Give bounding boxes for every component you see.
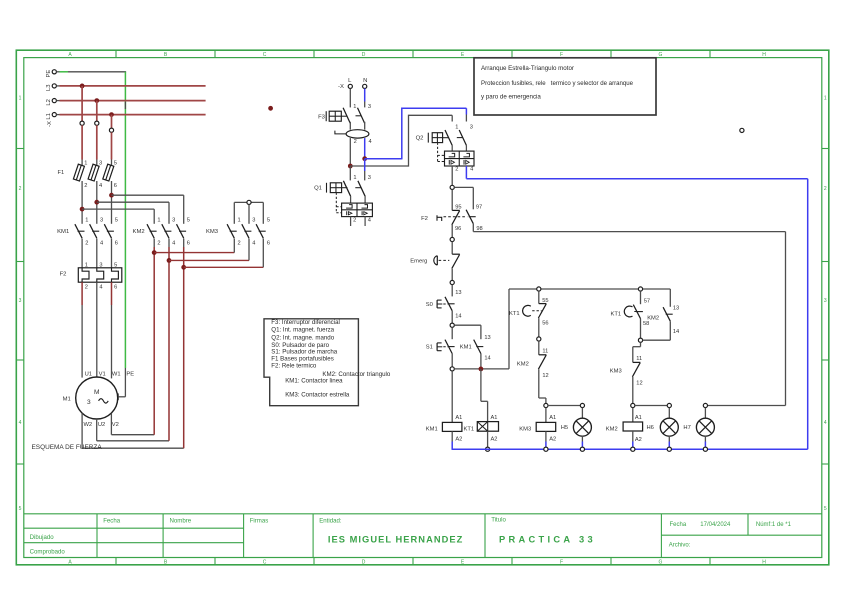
svg-text:M: M <box>94 389 100 396</box>
wire KM2 node to H6 <box>635 405 667 407</box>
svg-text:Proteccion fusibles, rele te: Proteccion fusibles, rele termico y sele… <box>481 80 634 87</box>
svg-text:4: 4 <box>100 241 103 247</box>
svg-text:Q2: Int. magne. mando: Q2: Int. magne. mando <box>271 334 334 341</box>
wire L1 supply line <box>60 114 206 116</box>
svg-text:13: 13 <box>484 335 490 341</box>
wire star bridge mid drop <box>248 205 250 224</box>
svg-text:A2: A2 <box>455 437 462 443</box>
wire node branch to 97 <box>454 186 473 188</box>
frame row numbers 1-5 left <box>19 95 22 512</box>
svg-text:Fecha: Fecha <box>103 518 121 525</box>
wire KM2 pole3 drop <box>183 195 185 224</box>
wire timed node down <box>640 342 642 346</box>
svg-text:C: C <box>263 52 267 58</box>
svg-text:S1: S1 <box>426 345 433 351</box>
contactor coil KM2 <box>606 415 643 443</box>
svg-text:Emerg: Emerg <box>410 258 427 264</box>
indicator lamp H5 <box>561 418 592 436</box>
svg-text:4: 4 <box>369 139 372 145</box>
connection point after S0 <box>450 323 454 327</box>
svg-text:Q1: Q1 <box>314 186 322 192</box>
wire to KM2 coil <box>632 408 634 422</box>
svg-text:3: 3 <box>99 262 102 268</box>
wire to KM3 nc <box>632 347 634 363</box>
svg-text:3: 3 <box>368 175 371 181</box>
svg-text:5: 5 <box>824 506 827 512</box>
contactor KM2 aux contact 13-14 <box>647 305 679 335</box>
svg-text:Comprobado: Comprobado <box>30 549 66 556</box>
wire neutral to riser blue <box>365 158 402 160</box>
svg-text:3: 3 <box>252 218 255 224</box>
connection point hold node <box>450 367 454 371</box>
wire phase top <box>409 114 453 116</box>
wire PE vertical gray patch <box>124 102 126 109</box>
wire KM2 nc jog down <box>545 398 547 403</box>
wire PE vertical green <box>124 72 126 368</box>
svg-text:96: 96 <box>455 226 461 232</box>
svg-text:KM3: KM3 <box>610 369 622 375</box>
connection point after 56 <box>537 337 541 341</box>
connection point timed node <box>638 338 642 342</box>
contactor coil KM1 <box>426 415 463 443</box>
svg-text:G: G <box>659 560 663 566</box>
wire phase1 to fuse <box>81 125 83 159</box>
timer contact KT1 55-56 <box>509 298 549 326</box>
svg-text:F: F <box>560 560 563 566</box>
wire L2 supply line <box>60 100 206 102</box>
svg-text:Entidad:: Entidad: <box>319 518 342 525</box>
wire Q2 pin3 lead <box>465 115 467 122</box>
connection point H6 A2 <box>667 447 671 451</box>
wire 97 drop <box>472 187 474 209</box>
contactor KM1 aux contact 13-14 <box>460 335 491 362</box>
wire 58 out <box>640 319 642 339</box>
description text box <box>474 58 656 115</box>
connection point after emerg <box>450 280 454 284</box>
wire H7 blue <box>704 442 706 448</box>
wire Q1 pin3 lead2 <box>364 171 366 180</box>
wire PE stub <box>56 71 59 73</box>
contactor KM3 aux NC contact 11-12 <box>610 356 643 386</box>
svg-text:12: 12 <box>542 373 548 379</box>
wire H5 drop <box>581 408 583 419</box>
wire delta c to KM3 pole3 <box>184 266 264 268</box>
svg-text:F3: Interruptor diferencial: F3: Interruptor diferencial <box>271 319 340 326</box>
indicator lamp H7 <box>683 418 714 436</box>
wire motor W2 across <box>82 447 184 449</box>
wire KM2 pole1 out <box>153 239 155 248</box>
wire neutral rail right blue <box>807 179 809 450</box>
svg-text:2: 2 <box>85 241 88 247</box>
wire phase3 to fuse <box>111 132 113 159</box>
svg-text:A1: A1 <box>549 415 556 421</box>
svg-text:13: 13 <box>673 305 679 311</box>
wire KM2 pole1 red drop <box>153 247 155 435</box>
svg-text:2: 2 <box>353 218 356 224</box>
svg-text:L2: L2 <box>46 99 52 106</box>
svg-text:A1: A1 <box>491 415 498 421</box>
wire motor V2 down <box>110 413 112 434</box>
wire KM2 pole2 out <box>168 239 170 248</box>
svg-text:D: D <box>362 52 366 58</box>
connection point control node <box>450 185 454 189</box>
svg-text:1: 1 <box>238 218 241 224</box>
wire phase to riser <box>350 165 408 167</box>
svg-text:58: 58 <box>643 321 649 327</box>
frame row numbers 1-5 right <box>824 95 827 512</box>
terminal L2 <box>46 99 57 106</box>
wire phase drop to Q2 <box>451 115 453 121</box>
svg-text:U1: U1 <box>85 371 92 377</box>
label -X power terminals <box>47 121 53 127</box>
junction phase1 branch <box>80 207 85 212</box>
svg-text:A2: A2 <box>549 437 556 443</box>
svg-text:KM1: KM1 <box>57 229 69 235</box>
svg-text:Titulo: Titulo <box>491 517 506 524</box>
svg-text:55: 55 <box>542 298 548 304</box>
svg-text:2: 2 <box>19 186 22 192</box>
frame column ticks top and bottom <box>116 50 710 565</box>
thermal relay F2 control contact 95-96 <box>421 205 467 233</box>
wire H5 blue <box>581 442 583 448</box>
wire L2 drop upper <box>96 101 98 122</box>
motor PE tick <box>117 393 119 400</box>
svg-text:1: 1 <box>85 262 88 268</box>
neutral rail bottom blue <box>452 448 808 450</box>
wire L1 stub <box>56 114 59 116</box>
wire S1 out <box>451 354 453 367</box>
svg-text:L1: L1 <box>46 113 52 120</box>
thermal relay F2 control contact 97-98 <box>466 205 483 233</box>
junction phase2 branch <box>94 200 99 205</box>
contactor KM2 main contacts <box>133 218 190 247</box>
wire KM3 A2 down <box>545 431 547 441</box>
star bridge bar <box>234 201 263 203</box>
wire F3 out left <box>349 138 351 166</box>
wire KM2 A2 down <box>632 431 634 442</box>
connection point KT1 A2 <box>486 447 490 451</box>
svg-text:V2: V2 <box>112 422 119 428</box>
junction KT1 feed <box>479 367 484 372</box>
wire KM1 A2 blue <box>451 442 453 450</box>
wire KM1 A2 down <box>451 431 453 441</box>
frame column letters A-H top <box>68 52 766 58</box>
svg-text:2: 2 <box>85 284 88 290</box>
svg-text:4: 4 <box>252 241 255 247</box>
svg-text:F2: F2 <box>60 272 67 278</box>
svg-text:KM1: KM1 <box>460 345 472 351</box>
svg-text:W1: W1 <box>112 371 121 377</box>
wire L3 drop upper <box>81 86 83 121</box>
svg-text:KT1: KT1 <box>509 311 520 317</box>
wire KT1 feed jog <box>481 400 488 402</box>
wire KM3 node to H5 <box>548 405 580 407</box>
wire to KM3 coil <box>545 408 547 423</box>
svg-text:KM2: KM2 <box>647 316 659 322</box>
svg-text:4: 4 <box>172 241 175 247</box>
svg-text:2: 2 <box>824 186 827 192</box>
wire delta a to KM3 pole1 <box>154 252 234 254</box>
svg-text:H: H <box>762 560 766 566</box>
wire H7 drop <box>704 408 706 419</box>
wire Q2 out blue <box>465 166 467 179</box>
svg-text:5: 5 <box>114 262 117 268</box>
svg-text:F2: Rele termico: F2: Rele termico <box>271 363 317 370</box>
title block grid <box>24 514 822 558</box>
svg-text:A2: A2 <box>491 437 498 443</box>
svg-text:1: 1 <box>353 104 356 110</box>
wire bus riser <box>508 289 510 369</box>
svg-text:3: 3 <box>100 218 103 224</box>
frame column letters A-H bottom <box>68 560 766 566</box>
svg-text:G: G <box>659 52 663 58</box>
svg-text:KM1: KM1 <box>426 427 438 433</box>
svg-text:1: 1 <box>85 218 88 224</box>
connection point KM3 A2 <box>544 447 548 451</box>
wire to emerg <box>451 242 453 255</box>
wire KM2 pole1 drop <box>153 209 155 224</box>
wire KM2 aux drop <box>669 289 671 307</box>
connection point H7 A2 <box>703 447 707 451</box>
wire PE horizontal <box>68 71 126 73</box>
wire delta b to KM3 pole2 <box>169 259 249 261</box>
wire F2 out U1 red <box>81 282 83 305</box>
svg-text:W2: W2 <box>83 422 92 428</box>
wire S0 node to KM1 aux <box>454 324 481 326</box>
wire to S1 <box>451 327 453 339</box>
svg-text:57: 57 <box>644 298 650 304</box>
wire motor W2 down <box>81 413 83 448</box>
connection point phase2 <box>95 121 99 125</box>
wire F2 out W1 <box>111 305 113 378</box>
junction delta c <box>181 265 186 270</box>
svg-text:14: 14 <box>484 356 490 362</box>
svg-text:KM3: KM3 <box>206 229 219 235</box>
connection point H5 A2 <box>580 447 584 451</box>
wire to KM2 nc <box>538 341 540 355</box>
thermal relay F2 power element <box>60 262 122 290</box>
emergency stop pushbutton Emerg <box>410 254 460 268</box>
svg-text:N: N <box>363 78 367 84</box>
svg-text:3: 3 <box>172 218 175 224</box>
svg-text:17/04/2024: 17/04/2024 <box>700 522 731 528</box>
svg-text:KM2: KM2 <box>517 362 529 368</box>
wire F2 out W1 red <box>111 282 113 305</box>
wire KM1 pole2 to F2 <box>96 239 98 268</box>
connection point after 96 <box>450 237 454 241</box>
svg-text:4: 4 <box>99 284 102 290</box>
svg-text:H6: H6 <box>647 425 654 431</box>
junction delta a <box>152 250 157 255</box>
svg-text:2: 2 <box>157 241 160 247</box>
svg-text:2: 2 <box>238 241 241 247</box>
svg-text:Archivo:: Archivo: <box>669 542 691 548</box>
indicator lamp H6 <box>647 418 679 436</box>
svg-text:PE: PE <box>126 371 134 377</box>
svg-text:Firmas: Firmas <box>250 518 269 525</box>
svg-text:1: 1 <box>84 160 87 166</box>
legend box <box>264 319 391 406</box>
svg-text:95: 95 <box>455 205 461 211</box>
wire KM2 pole2 red drop <box>168 247 170 441</box>
wire F2 out U1 <box>81 305 83 378</box>
wire S0 out <box>451 311 453 323</box>
label ESQUEMA DE FUERZA <box>32 444 103 451</box>
wire L2 stub <box>56 100 59 102</box>
connection point star bridge <box>247 200 251 204</box>
wire phase2 fuse lead <box>96 160 98 167</box>
wire Q1 pin1 lead <box>349 166 351 180</box>
wire lamp rail to H7 <box>708 405 786 407</box>
svg-text:4: 4 <box>99 183 102 189</box>
fuse bank F1 <box>58 160 117 189</box>
svg-text:5: 5 <box>187 218 190 224</box>
wire KM3 nc out <box>632 377 634 404</box>
svg-text:KM2: KM2 <box>606 427 618 433</box>
wire KM3 pole2 out <box>248 239 250 261</box>
svg-text:3: 3 <box>87 399 91 406</box>
svg-text:ESQUEMA DE FUERZA: ESQUEMA DE FUERZA <box>32 444 103 451</box>
wire neutral rail top blue <box>466 178 807 180</box>
wire KM1 aux out <box>480 354 482 367</box>
wire neutral top blue <box>402 107 467 109</box>
wire branch phase2 to KM2 pole2 <box>97 201 169 203</box>
svg-text:11: 11 <box>542 349 548 355</box>
connection point phase1 <box>80 121 84 125</box>
svg-text:A1: A1 <box>455 415 462 421</box>
connection point KM2 coil node <box>631 403 635 407</box>
wire F2 out V1 <box>96 282 98 377</box>
svg-text:3: 3 <box>19 298 22 304</box>
wire PE green segment <box>60 71 69 73</box>
svg-text:H: H <box>762 52 766 58</box>
wire phase1 fuse lead <box>81 160 83 167</box>
wire motor U2 across <box>97 440 169 442</box>
svg-text:1: 1 <box>157 218 160 224</box>
wire N drop lead <box>364 102 366 108</box>
wire neutral riser blue <box>401 108 403 160</box>
svg-text:Númf:1 de *1: Númf:1 de *1 <box>756 522 792 528</box>
svg-text:H7: H7 <box>683 425 690 431</box>
svg-text:5: 5 <box>267 218 270 224</box>
wire N drop blue <box>364 89 366 102</box>
wire H6 drop <box>668 408 670 419</box>
timer contact KT1 57-58 <box>611 298 651 327</box>
svg-text:1: 1 <box>824 95 827 101</box>
junction phase rail <box>348 164 353 169</box>
stray connection circle <box>740 128 744 132</box>
svg-text:4: 4 <box>470 167 473 173</box>
wire KM2 nc jog <box>539 397 546 399</box>
svg-text:Q2: Q2 <box>416 135 424 141</box>
svg-text:Fecha: Fecha <box>670 522 687 528</box>
motor M1 <box>63 371 135 428</box>
wire KM2 nc out <box>538 369 540 398</box>
svg-text:F1: F1 <box>58 170 65 176</box>
svg-text:11: 11 <box>636 356 642 362</box>
wire KM2 pole2 drop <box>168 202 170 224</box>
svg-text:V1: V1 <box>99 371 106 377</box>
wire 96 out <box>451 225 453 238</box>
wire KM3 A2 blue <box>545 442 547 448</box>
wire timed bus to 55 <box>538 291 540 304</box>
terminal N control <box>363 78 368 88</box>
junction delta b <box>167 258 172 263</box>
svg-text:12: 12 <box>636 380 642 386</box>
wire 56 out <box>538 318 540 337</box>
label -X control <box>338 84 344 90</box>
svg-text:KM1: Contactor linea: KM1: Contactor linea <box>285 378 343 385</box>
wire fuse2 out <box>96 181 98 224</box>
terminal L1 <box>46 113 57 120</box>
wire PE into motor <box>118 396 125 398</box>
wire to KM1 coil <box>451 371 453 422</box>
svg-text:PE: PE <box>46 70 52 78</box>
title block labels <box>30 517 792 556</box>
wire KM2 pole3 red drop <box>183 247 185 448</box>
svg-text:Nombre: Nombre <box>170 518 192 525</box>
terminal PE <box>46 70 57 78</box>
svg-text:KT1: KT1 <box>611 312 622 318</box>
connection point H6 top <box>667 403 671 407</box>
svg-text:1: 1 <box>455 124 458 130</box>
contactor KM1 main contacts <box>57 218 118 247</box>
contactor coil KM3 <box>519 415 556 443</box>
connection point H7 top <box>703 403 707 407</box>
wire KM2 pole3 out <box>183 239 185 248</box>
svg-text:1: 1 <box>353 175 356 181</box>
wire 98 to lamp rail <box>473 231 785 233</box>
svg-text:M1: M1 <box>63 396 71 402</box>
wire L3 supply line <box>60 85 206 87</box>
junction L3 tap <box>80 84 85 89</box>
svg-text:Arranque Estrella-Triangulo mo: Arranque Estrella-Triangulo motor <box>481 65 574 72</box>
svg-text:5: 5 <box>114 160 117 166</box>
wire H6 down <box>668 436 670 442</box>
wire KM3 pole1 out <box>233 239 235 253</box>
svg-text:4: 4 <box>824 420 827 426</box>
svg-text:-X: -X <box>338 84 344 90</box>
svg-text:IES MIGUEL HERNANDEZ: IES MIGUEL HERNANDEZ <box>328 534 464 544</box>
svg-text:PRACTICA 33: PRACTICA 33 <box>499 534 596 544</box>
wire phase riser <box>408 115 410 167</box>
wire L3 stub <box>56 85 59 87</box>
svg-text:A1: A1 <box>635 415 642 421</box>
wire fuse1 out <box>81 181 83 224</box>
wire Q2 out to node <box>451 166 453 185</box>
wire KM1 pole3 to F2 <box>111 239 113 268</box>
svg-text:U2: U2 <box>98 422 105 428</box>
inner border frame <box>24 58 822 558</box>
svg-text:3: 3 <box>99 160 102 166</box>
junction L1 tap <box>109 112 114 117</box>
svg-text:5: 5 <box>115 218 118 224</box>
wire node to F2 95 <box>451 190 453 211</box>
svg-text:4: 4 <box>368 218 371 224</box>
svg-text:5: 5 <box>19 506 22 512</box>
wire phase2 to fuse <box>96 125 98 159</box>
svg-text:3: 3 <box>470 124 473 130</box>
svg-text:3: 3 <box>824 298 827 304</box>
terminal L3 <box>46 84 57 91</box>
svg-text:C: C <box>263 560 267 566</box>
svg-text:6: 6 <box>114 183 117 189</box>
circuit breaker Q2 <box>416 124 474 172</box>
pushbutton S1 <box>426 340 455 354</box>
svg-text:L3: L3 <box>46 84 52 91</box>
wire KT1 A2 down <box>487 431 489 447</box>
title PRACTICA 33 <box>499 534 596 544</box>
